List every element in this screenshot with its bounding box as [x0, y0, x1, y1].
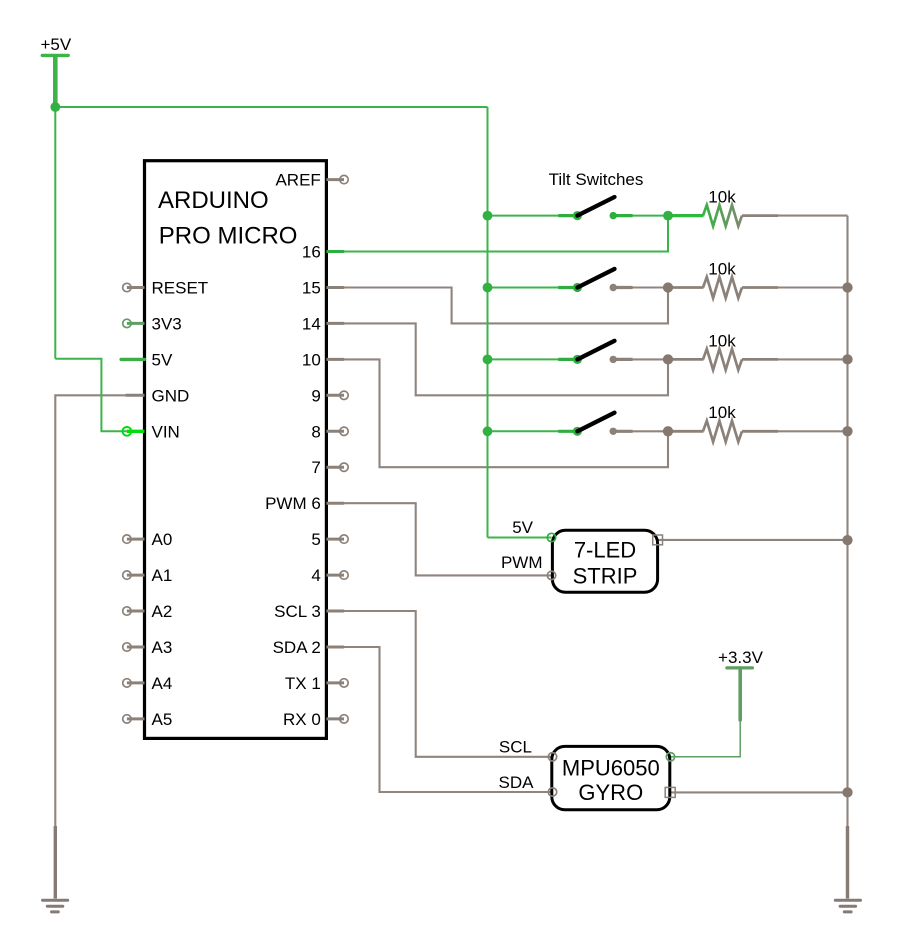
resistor R2 10k [668, 259, 778, 298]
pin VIN [123, 422, 180, 441]
svg-text:+3.3V: +3.3V [718, 648, 764, 667]
node switch2 output junction [663, 282, 673, 292]
node bus LED GND junction [842, 535, 852, 545]
svg-text:10k: 10k [708, 331, 736, 350]
svg-text:14: 14 [302, 314, 321, 333]
wire bus to switch1 input [488, 215, 578, 217]
pin A4 [123, 674, 173, 693]
node switch4 output junction [663, 426, 673, 436]
svg-text:3V3: 3V3 [152, 314, 182, 333]
svg-text:16: 16 [302, 243, 321, 262]
svg-text:10k: 10k [708, 259, 736, 278]
node switch2 input junction [483, 283, 493, 293]
module MPU6050 GYRO [552, 746, 670, 809]
node switch1 input junction [483, 211, 493, 221]
svg-text:STRIP: STRIP [573, 564, 638, 589]
svg-text:TX 1: TX 1 [285, 674, 321, 693]
wire Arduino GND to left ground [55, 395, 125, 827]
svg-text:A3: A3 [152, 638, 173, 657]
wire bus to switch2 input [488, 287, 578, 289]
resistor R4 10k [668, 403, 778, 442]
svg-text:SDA: SDA [499, 773, 535, 792]
wire +5V to VIN [55, 359, 127, 432]
svg-text:5V: 5V [512, 518, 533, 537]
svg-text:SDA 2: SDA 2 [273, 638, 321, 657]
svg-text:7-LED: 7-LED [574, 538, 636, 563]
pin LED 5V [512, 518, 555, 542]
svg-text:MPU6050: MPU6050 [562, 756, 660, 781]
node bus MPU GND junction [842, 787, 852, 797]
ground right [835, 826, 860, 912]
svg-text:10: 10 [302, 350, 321, 369]
pin AREF [275, 171, 348, 190]
wire switch4 output to R4 [630, 430, 670, 432]
wire ground bus vertical [846, 216, 848, 828]
svg-text:GND: GND [152, 386, 190, 405]
wire R2 to ground bus [776, 286, 848, 288]
svg-text:SCL 3: SCL 3 [274, 602, 321, 621]
node switch4 input junction [483, 426, 493, 436]
wire R4 to ground bus [776, 430, 848, 432]
wire SCL3 to MPU SCL [344, 611, 553, 757]
pin 5V [121, 350, 173, 369]
svg-text:RESET: RESET [152, 279, 209, 298]
svg-text:PWM: PWM [501, 553, 543, 572]
pin MPU SDA [499, 773, 557, 796]
svg-text:PWM 6: PWM 6 [265, 494, 321, 513]
node switch3 output junction [663, 354, 673, 364]
node bus R2 junction [842, 282, 852, 292]
tilt switch S4 [558, 413, 632, 436]
svg-text:7: 7 [311, 458, 320, 477]
wire +3.3V to MPU VCC [671, 720, 741, 757]
wire pin14 to switch3 output node [344, 323, 668, 395]
pin 4 [311, 566, 348, 585]
svg-text:+5V: +5V [41, 35, 72, 54]
pin RESET [123, 279, 208, 298]
svg-text:A4: A4 [152, 674, 173, 693]
ground left [43, 826, 68, 912]
node bus R4 junction [842, 426, 852, 436]
pin A1 [123, 566, 173, 585]
wire R3 to ground bus [776, 358, 848, 360]
wire +5V rail top horizontal [55, 106, 487, 108]
svg-text:VIN: VIN [152, 422, 180, 441]
svg-text:A2: A2 [152, 602, 173, 621]
pin 16 [302, 243, 344, 262]
svg-text:4: 4 [311, 566, 320, 585]
wire switch3 output to R3 [630, 358, 670, 360]
resistor R1 10k [668, 188, 778, 227]
tilt switch S2 [558, 269, 632, 292]
pin 10 [302, 350, 344, 369]
svg-text:SCL: SCL [499, 738, 532, 757]
svg-text:Tilt Switches: Tilt Switches [549, 170, 644, 189]
wire R1 to ground bus [776, 215, 848, 217]
pin A5 [123, 710, 173, 729]
pin LED GND [653, 535, 663, 545]
wire PWM6 to LED strip PWM [344, 503, 552, 575]
svg-text:A5: A5 [152, 710, 173, 729]
module 7-LED STRIP [552, 530, 657, 592]
pin A0 [123, 530, 173, 549]
pin PWM 6 [265, 494, 344, 513]
tilt switch S3 [558, 341, 632, 364]
svg-text:10k: 10k [708, 188, 736, 207]
wire SDA2 to MPU SDA [344, 647, 553, 792]
svg-text:8: 8 [311, 422, 320, 441]
pin 9 [311, 386, 348, 405]
svg-text:9: 9 [311, 386, 320, 405]
pin 8 [311, 422, 348, 441]
pin MPU VCC [666, 753, 674, 761]
wire MPU6050 GND to bus [669, 791, 848, 793]
node switch3 input junction [483, 355, 493, 365]
power symbol +3.3V [671, 648, 764, 757]
wire pin10 to switch4 output node [344, 359, 668, 467]
pin RX 0 [283, 710, 348, 729]
svg-text:AREF: AREF [275, 171, 320, 190]
pin MPU GND [665, 787, 675, 797]
pin 14 [302, 314, 344, 333]
svg-text:A1: A1 [152, 566, 173, 585]
wire 5V bus to LED strip 5V [488, 537, 552, 539]
wire +5V rail left vertical [54, 107, 56, 359]
wire bus to switch3 input [488, 358, 578, 360]
wire switch2 output to R2 [630, 286, 670, 288]
resistor R3 10k [668, 331, 778, 370]
wire pin15 to switch2 output node [344, 288, 668, 324]
wire switch1 output to R1 node [614, 215, 669, 217]
node bus R3 junction [842, 354, 852, 364]
wire switch1 node to pin16 [344, 216, 668, 252]
pin A3 [123, 638, 173, 657]
wire +5V bus to switches vertical [487, 107, 489, 538]
pin SDA 2 [273, 638, 345, 657]
pin MPU SCL [499, 738, 557, 762]
svg-text:15: 15 [302, 279, 321, 298]
pin LED PWM [501, 553, 556, 580]
svg-text:PRO MICRO: PRO MICRO [159, 223, 298, 250]
svg-text:5: 5 [311, 530, 320, 549]
svg-text:GYRO: GYRO [578, 780, 643, 805]
node +5V rail junction [50, 102, 60, 112]
pin 5 [311, 530, 348, 549]
IC U1 ARDUINO PRO MICRO [145, 161, 327, 739]
pin A2 [123, 602, 173, 621]
svg-text:10k: 10k [708, 403, 736, 422]
pin TX 1 [285, 674, 348, 693]
power symbol +5V [41, 35, 72, 107]
pin GND [125, 386, 189, 405]
svg-text:RX 0: RX 0 [283, 710, 321, 729]
pin 3V3 [123, 314, 182, 333]
node switch1 output junction [663, 211, 673, 221]
pin SCL 3 [274, 602, 344, 621]
tilt switch S1 [558, 197, 632, 220]
svg-text:A0: A0 [152, 530, 173, 549]
svg-text:5V: 5V [152, 350, 173, 369]
wire bus to switch4 input [488, 430, 578, 432]
pin 15 [302, 279, 344, 298]
wire LED strip GND to bus [656, 539, 848, 541]
svg-text:ARDUINO: ARDUINO [158, 187, 269, 214]
pin 7 [311, 458, 348, 477]
